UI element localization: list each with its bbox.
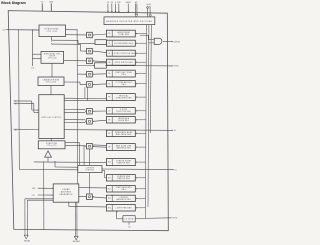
chip outer boundary	[8, 11, 168, 231]
comparator at y74.2	[87, 71, 93, 77]
wire light pen reg down	[116, 211, 118, 219]
svg-text:CLK: CLK	[32, 195, 35, 197]
wire comparator R9 to max scan reg a	[93, 144, 106, 147]
bus arrow into R4	[136, 73, 146, 75]
svg-text:R9: R9	[108, 133, 110, 135]
wire vertical control to R6 b	[64, 99, 105, 101]
svg-text:VT: VT	[15, 101, 17, 103]
svg-text:RESET: RESET	[126, 2, 131, 4]
output VSYNC left segment	[14, 128, 39, 130]
wire clk rail to cursor control	[19, 169, 78, 171]
comparator input arrow at y111.2	[85, 111, 86, 112]
wire scan line ctr out A	[66, 142, 80, 144]
svg-text:CHARACTER ROWCTR (+128): CHARACTER ROWCTR (+128)	[43, 78, 60, 83]
comparator at y196.7	[87, 194, 93, 200]
svg-text:R0: R0	[108, 33, 110, 35]
wire into sync width ctr b	[32, 58, 41, 60]
svg-text:CLK: CLK	[2, 30, 6, 32]
node raster drop junction	[43, 162, 44, 163]
wire vertical control to comparator R8 b	[64, 122, 85, 124]
svg-text:R10: R10	[108, 162, 111, 164]
bus arrow into R5	[136, 83, 146, 85]
svg-text:DISPTMG: DISPTMG	[174, 41, 180, 43]
wire vertical control to comparator R7 b	[64, 111, 85, 113]
register R5 V TOTAL ADJUST REG	[106, 81, 135, 87]
wire comparator R9 down to cursor control	[89, 149, 91, 165]
wire LPSTB input	[135, 217, 171, 220]
register R2 H SYNC POSITION REG	[106, 50, 135, 56]
pin D0-D7 bidirectional pair	[147, 8, 149, 17]
svg-text:R3: R3	[108, 62, 110, 64]
svg-text:R1: R1	[108, 43, 110, 45]
comparator input arrow at y51.1	[85, 50, 86, 51]
svg-text:R2: R2	[108, 53, 110, 55]
wire LAG to comparator R14	[79, 196, 85, 198]
svg-text:H DISPLAYED REG: H DISPLAYED REG	[114, 42, 133, 45]
comparator register-side arrow at y84.4	[93, 84, 94, 85]
register R7 V SYNC POSITION REG	[106, 108, 135, 114]
bus arrow into R3	[136, 61, 147, 63]
svg-text:INTERLACEMODE REG: INTERLACEMODE REG	[118, 117, 129, 122]
register R14 CURSOR ADDRESS REG	[106, 195, 135, 201]
svg-text:R14: R14	[108, 198, 111, 200]
svg-text:RS: RS	[111, 2, 113, 4]
pin RS	[111, 4, 113, 12]
node H bus junction	[77, 29, 78, 30]
wire to comparator R2 in	[81, 50, 86, 52]
register R4 VERTICAL TOTAL REG	[106, 70, 135, 77]
wire raster line to cursor start reg	[34, 161, 105, 164]
wire vertical control to comparator R8 a	[64, 119, 85, 121]
bus RA out double line	[25, 198, 53, 200]
svg-text:CURSORCONTROL: CURSORCONTROL	[85, 167, 94, 171]
register R9 MAX SCAN LINE ADDRESS REG	[106, 144, 135, 151]
register R10 CURSOR START RASTER REG	[106, 159, 135, 166]
wire sync ctr down to char row ctr	[51, 63, 53, 77]
svg-text:VERTICALDISPLAYED REG: VERTICALDISPLAYED REG	[116, 95, 133, 100]
svg-text:E: E	[115, 2, 116, 4]
wire raster to cursor control	[54, 162, 56, 167]
comparator input arrow at y146.2	[85, 146, 86, 147]
svg-text:R6: R6	[108, 97, 110, 99]
svg-text:HSYNC: HSYNC	[174, 66, 180, 68]
comparator input arrow at y74.2	[85, 74, 86, 75]
comparator register-side arrow at y51.1	[93, 50, 94, 51]
svg-text:VERTICAL TOTALREG: VERTICAL TOTALREG	[115, 71, 132, 76]
svg-text:HORIZONTALCTR +256: HORIZONTALCTR +256	[45, 28, 59, 34]
comparator register-side arrow at y196.7	[93, 196, 94, 197]
svg-text:SYNC WIDTH REG: SYNC WIDTH REG	[115, 62, 134, 64]
buffer triangle under scan line CTR	[45, 151, 52, 157]
rail left vertical	[18, 30, 21, 170]
bus arrow into R14	[136, 197, 146, 199]
svg-text:MS0: MS0	[32, 188, 35, 190]
register R8 INTERLACE MODE REG	[106, 117, 135, 123]
bus arrow into R6	[136, 96, 146, 98]
comparator input arrow at y35.0	[85, 34, 86, 35]
comparator register-side arrow at y35.0	[93, 34, 94, 35]
bus vertical line B2	[147, 25, 150, 207]
comparator register-side arrow at y111.2	[93, 111, 94, 112]
svg-text:ADDRESS REGISTER AND DECODER: ADDRESS REGISTER AND DECODER	[106, 20, 152, 23]
register R3 SYNC WIDTH REG	[106, 59, 135, 65]
output HSYNC	[105, 65, 172, 67]
svg-text:D0-D7: D0-D7	[146, 4, 151, 6]
bus vertical line B1	[145, 25, 146, 218]
wire char row ctr down to vertical control	[50, 86, 52, 95]
svg-text:DE SKEW: DE SKEW	[124, 219, 133, 221]
comparator at y111.2	[87, 108, 93, 114]
wire triangle drop	[47, 157, 49, 162]
pin R/W	[118, 4, 120, 12]
box horizontal sync width CTR	[41, 52, 64, 64]
svg-text:CU: CU	[174, 169, 176, 171]
register R9 INTERLACE MODE AND SKEW REG	[106, 130, 135, 136]
gate G1 horizontal display	[95, 40, 106, 45]
wire to comparator R2 horizontal	[51, 43, 80, 45]
wire comparator outputs to registers	[93, 34, 106, 35]
wire vertical control to R6 a	[64, 97, 105, 99]
svg-text:MA0-MA13: MA0-MA13	[73, 240, 80, 243]
wire H bus to gate G2	[77, 65, 93, 67]
bus pin AR - double line into address register	[134, 4, 136, 15]
svg-text:SCAN LINECTR (+32): SCAN LINECTR (+32)	[46, 142, 57, 147]
wire H ctr out to H bus	[66, 29, 78, 31]
svg-text:LPSTB: LPSTB	[172, 218, 177, 220]
wire H ctr bottom drop	[50, 37, 52, 41]
wire scan out A down to cursor control	[79, 143, 81, 166]
bus arrow into R9	[136, 146, 146, 148]
register R12 START ADDRESS REG	[106, 186, 135, 192]
gate G3 cursor output AND gate	[154, 38, 162, 44]
comparator at y84.4	[87, 82, 93, 88]
wire H ctr bottom to gate G1	[51, 39, 78, 41]
box linear address generator	[53, 184, 79, 202]
bus arrow into R8	[136, 119, 146, 121]
comparator register-side arrow at y60.9	[93, 60, 94, 61]
bus arrow into R16	[136, 207, 146, 209]
wire scan line ctr to comparator R9	[66, 145, 86, 147]
comparator at y51.1	[87, 48, 93, 54]
node H bus crossing R0 wire	[77, 34, 78, 35]
pin E	[114, 4, 116, 12]
svg-text:R5: R5	[108, 83, 110, 85]
bus H vertical	[76, 30, 79, 184]
box character row CTR	[38, 77, 64, 86]
wire comparator R5 drop b	[86, 87, 88, 100]
svg-text:GND: GND	[49, 2, 54, 4]
box cursor control	[78, 165, 102, 172]
svg-text:CURSOR ENDRASTER REG: CURSOR ENDRASTER REG	[117, 176, 131, 180]
svg-text:HORIZONTALTOTAL REG: HORIZONTALTOTAL REG	[117, 31, 130, 36]
wire comparator R5 drop a	[84, 87, 86, 98]
svg-text:START ADDRESSREG: START ADDRESSREG	[116, 186, 132, 191]
svg-text:RA0-RA4: RA0-RA4	[24, 239, 30, 242]
svg-text:LIGHT PEN REG: LIGHT PEN REG	[116, 207, 133, 209]
svg-text:Block Diagram: Block Diagram	[1, 1, 26, 5]
svg-text:R/W: R/W	[117, 2, 121, 4]
svg-text:VD: VD	[15, 130, 17, 132]
pin Vcc	[41, 3, 43, 11]
svg-text:R7: R7	[108, 110, 110, 112]
comparator input arrow at y121.3	[85, 121, 86, 122]
bus RA arrowhead	[24, 235, 28, 239]
comparator at y60.9	[87, 58, 93, 64]
wire raster drop to border	[43, 162, 45, 230]
output DISPTMG	[163, 40, 172, 42]
wire H bus to comparator R4	[77, 73, 85, 75]
pin RESET	[127, 4, 129, 13]
svg-text:R9: R9	[108, 147, 110, 149]
svg-text:V TOTAL ADJUSTREG: V TOTAL ADJUSTREG	[116, 81, 133, 86]
comparator register-side arrow at y146.2	[93, 146, 94, 147]
register R6 VERTICAL DISPLAYED REG	[106, 94, 135, 101]
comparator at y146.2	[87, 143, 93, 149]
bus arrow into R11	[136, 177, 146, 179]
register R11 CURSOR END RASTER REG	[106, 175, 135, 181]
wire to comparator R2 drop	[80, 44, 82, 51]
bus arrow into R2	[136, 52, 147, 54]
bus arrow into R10	[136, 161, 146, 163]
wire gate G3 inputs	[148, 39, 154, 41]
wire cursor control down to comparator R14	[88, 173, 90, 194]
wire skew box bottom stub	[128, 222, 130, 225]
box horizontal CTR	[39, 25, 66, 37]
bus MA out double line	[74, 202, 76, 236]
wire dotted H bus continuation	[50, 41, 52, 44]
svg-text:CS: CS	[107, 2, 109, 4]
wire gate G3 input riser	[140, 34, 148, 36]
output CUDISP	[102, 168, 173, 171]
svg-text:CURSOR STARTRASTER REG: CURSOR STARTRASTER REG	[116, 160, 131, 165]
wire CLK stub down to sync width ctr	[31, 30, 33, 66]
wire comparator R14 to cursor address reg	[93, 197, 106, 198]
register R0 HORIZONTAL TOTAL REG	[106, 30, 135, 37]
bus vertical line B3	[149, 25, 152, 133]
bus MA arrowhead	[74, 236, 78, 240]
svg-text:VS: VS	[174, 130, 176, 132]
svg-text:H SYNC POSITION REG: H SYNC POSITION REG	[112, 53, 136, 55]
comparator input arrow at y60.9	[85, 60, 86, 61]
wire comparator R9 to max scan reg b	[93, 146, 106, 149]
bus arrow into R7	[136, 110, 146, 112]
node raster junction	[54, 161, 55, 162]
svg-text:CLK: CLK	[128, 227, 131, 229]
wire scan out B down to cursor control	[83, 146, 85, 166]
svg-text:CURSORADDRESS REG: CURSORADDRESS REG	[117, 197, 132, 201]
svg-text:R8: R8	[108, 119, 110, 121]
box skew latch	[123, 216, 135, 222]
node CLK junction	[32, 29, 33, 30]
comparator register-side arrow at y121.3	[93, 121, 94, 122]
box scan line CTR	[38, 141, 65, 149]
svg-text:LINEARADDRESSGENERATOR: LINEARADDRESSGENERATOR	[59, 188, 73, 196]
wire vertical control down to scan line ctr	[51, 139, 53, 141]
svg-text:V SYNCPOSITION REG: V SYNCPOSITION REG	[116, 109, 131, 113]
svg-text:MAX SCAN LINEADDRESS REG: MAX SCAN LINEADDRESS REG	[116, 145, 132, 150]
bus arrow into R1	[136, 42, 147, 44]
comparator register-side arrow at y74.2	[93, 74, 94, 75]
wire left border pair into vertical control b	[14, 102, 34, 104]
wire LAG to start address reg	[79, 187, 105, 189]
wire char row ctr to comparator R5	[64, 81, 80, 83]
svg-text:VERTICAL CONTROL: VERTICAL CONTROL	[41, 116, 61, 119]
comparator at y121.3	[87, 119, 93, 125]
wire LAG to light pen reg elbow	[68, 202, 70, 206]
svg-text:INTERLACE MODEAND SKEW REG: INTERLACE MODEAND SKEW REG	[115, 131, 133, 136]
bus arrow into R12	[136, 188, 146, 190]
wire left border pair into vertical control a	[14, 100, 32, 102]
svg-text:R11: R11	[108, 177, 111, 179]
comparator input arrow at y196.7	[85, 196, 86, 197]
register R16 LIGHT PEN REG	[106, 205, 135, 211]
box U1 address register and decoder	[104, 17, 155, 25]
pin GND	[50, 3, 52, 11]
wire cursor control to cursor end reg elbow	[102, 169, 105, 171]
node scan out B junction	[84, 145, 85, 146]
svg-text:R12: R12	[108, 188, 111, 190]
svg-text:CLK: CLK	[31, 68, 35, 70]
wire vertical control to comparator R7 a	[64, 109, 85, 111]
gate G2 horizontal sync	[95, 63, 107, 68]
svg-text:R16: R16	[108, 207, 111, 209]
output VSYNC	[64, 129, 172, 132]
svg-text:R4: R4	[108, 73, 110, 75]
bus arrow into R0	[136, 33, 147, 35]
bus arrow into R9	[136, 132, 146, 134]
comparator at y35.0	[87, 32, 93, 38]
svg-text:Vcc: Vcc	[41, 2, 44, 4]
box vertical control	[39, 95, 64, 139]
wire into sync width ctr a	[32, 53, 41, 55]
svg-text:AR: AR	[135, 1, 138, 4]
svg-text:HORIZONTAL SYNCWIDTHCTR (+16): HORIZONTAL SYNCWIDTHCTR (+16)	[44, 53, 62, 60]
comparator input arrow at y84.4	[85, 84, 86, 85]
register R1 H DISPLAYED REG	[106, 40, 135, 46]
pin CS	[107, 4, 109, 12]
wire H ctr to comparator R0	[66, 34, 86, 36]
wire sync width ctr to comparator R3	[64, 60, 86, 62]
node rail junction	[18, 29, 19, 30]
